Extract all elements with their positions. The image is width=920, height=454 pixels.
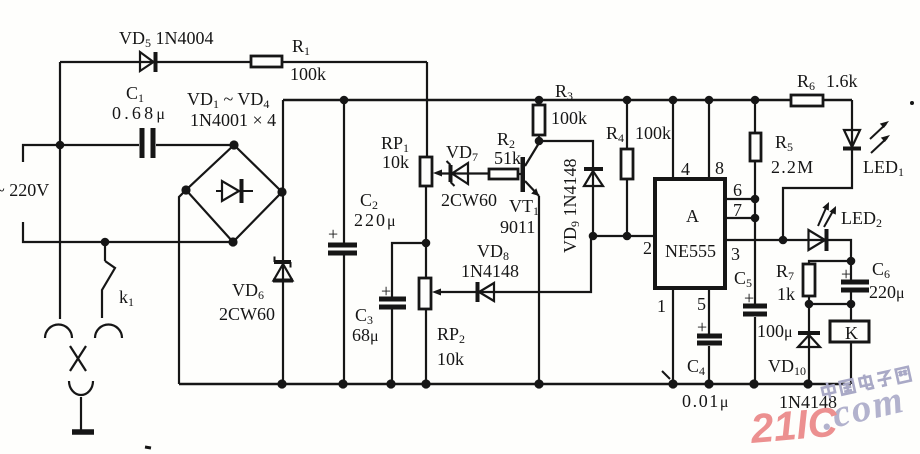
svg-text:VD1 ~ VD4: VD1 ~ VD4	[187, 89, 269, 111]
node RP1 bottom / C3 tap	[422, 239, 431, 248]
node pin2 junction	[589, 232, 598, 241]
svg-text:68μ: 68μ	[352, 325, 379, 345]
wire NE555 pin 4	[672, 100, 674, 179]
node A after LED2	[847, 257, 856, 266]
capacitor C1	[142, 128, 153, 158]
wire relay K branch x851	[850, 304, 852, 384]
wire RP1-RP2 chain x426	[425, 186, 427, 278]
wire V+ bus y100	[283, 99, 852, 102]
svg-text:~ 220V: ~ 220V	[0, 180, 49, 200]
wire AC line 2 y242 with terminal stub	[23, 222, 233, 242]
wire VT1 emitter down to ground bus x539	[538, 196, 540, 384]
node bridge top corner	[229, 140, 238, 149]
op-amp U1 NE555 box	[655, 179, 725, 288]
capacitor C6	[841, 282, 869, 290]
svg-text:100k: 100k	[551, 108, 587, 128]
stray mark near pin1	[662, 371, 670, 379]
node pin6	[751, 195, 760, 204]
wire C6 branch x851	[850, 261, 852, 304]
svg-text:3: 3	[731, 244, 740, 264]
relay K box	[830, 321, 869, 342]
wire NE555 pin 3 to LED2	[725, 240, 851, 261]
wire C2 branch x344	[343, 100, 345, 243]
svg-text:21IC: 21IC	[748, 398, 841, 452]
svg-text:LED2: LED2	[841, 208, 882, 230]
wire bridge - output drop to ground	[179, 190, 186, 384]
LED LED2	[809, 202, 837, 251]
bridge rectifier VD1-VD4 diamond	[186, 145, 282, 242]
svg-text:100k: 100k	[635, 123, 671, 143]
wire left vertical x60	[59, 62, 61, 319]
node AC1/left vertical	[56, 141, 65, 150]
svg-text:A: A	[686, 206, 699, 226]
wire top rail y62 (VD5/R1 line)	[60, 61, 427, 63]
capacitor C5	[743, 306, 767, 314]
diode VD5	[140, 52, 156, 72]
wire VD10 branch x809	[808, 304, 810, 384]
svg-text:2CW60: 2CW60	[441, 190, 497, 210]
wire NE555 pin 8	[708, 100, 710, 179]
svg-text:9011: 9011	[500, 217, 535, 237]
wire VD8 branch: down from pin2 node, left to RP2 wiper	[437, 236, 591, 292]
ground bus dots	[277, 379, 812, 388]
wire AC line 1 y145 with terminal stub	[23, 145, 234, 162]
svg-text:+: +	[381, 281, 391, 301]
node R3 bottom / collector	[535, 137, 544, 146]
svg-text:7: 7	[733, 200, 742, 220]
node bridge bottom corner	[228, 237, 237, 246]
svg-text:6: 6	[733, 180, 742, 200]
switch k1	[102, 242, 115, 318]
svg-text:2: 2	[643, 238, 652, 258]
resistor R7	[803, 264, 815, 296]
node R5 top	[751, 96, 760, 105]
wire NE555 pin 5 through C4 to ground	[708, 288, 710, 384]
node pin4 top	[669, 96, 678, 105]
resistor R4	[621, 149, 633, 179]
wire R4 leads x627	[626, 100, 628, 149]
socket contact arc left	[45, 325, 72, 339]
resistor R3	[533, 105, 545, 135]
node C2 top	[340, 96, 349, 105]
node k1 tap	[101, 238, 110, 247]
svg-text:100μ: 100μ	[757, 321, 793, 341]
wire NE555 pin 6 stub	[725, 198, 755, 200]
capacitor C4	[697, 336, 722, 343]
wire bridge + output vertical x283	[282, 100, 284, 384]
wire LED1 chain from R6 corner down and to pin3 node	[783, 100, 852, 240]
diode VD9	[584, 169, 603, 186]
svg-text:2CW60: 2CW60	[219, 304, 275, 324]
node R4 bottom	[623, 232, 632, 241]
svg-text:10k: 10k	[437, 349, 464, 369]
plug cup arc	[69, 381, 93, 395]
diode VD10	[798, 333, 820, 347]
capacitor C2	[328, 245, 357, 253]
LED LED1	[843, 121, 890, 153]
potentiometer RP1	[420, 157, 442, 186]
svg-text:VD5 1N4004: VD5 1N4004	[119, 28, 214, 50]
node bridge left corner	[181, 185, 190, 194]
svg-text:1k: 1k	[777, 284, 795, 304]
wire RP1 wiper to VD7	[438, 172, 489, 174]
stray dot top right	[910, 101, 914, 105]
svg-text:5: 5	[697, 294, 706, 314]
svg-text:0.68μ: 0.68μ	[112, 103, 168, 123]
svg-text:0.01μ: 0.01μ	[682, 391, 730, 411]
resistor R1	[251, 56, 282, 67]
plug stem	[80, 397, 82, 430]
svg-text:4: 4	[681, 159, 690, 179]
zener VD6	[273, 257, 293, 281]
svg-text:K: K	[845, 323, 858, 343]
node R4 top	[623, 96, 632, 105]
svg-text:220μ: 220μ	[354, 210, 398, 230]
node R3 top	[535, 96, 544, 105]
svg-text:1N4001 × 4: 1N4001 × 4	[190, 110, 276, 130]
svg-text:+: +	[744, 288, 754, 308]
svg-text:8: 8	[715, 158, 724, 178]
node pin7	[751, 214, 760, 223]
wire vertical from R1 corner down to RP1 top	[426, 62, 428, 157]
resistor R2	[489, 169, 518, 179]
plug X symbol	[70, 346, 86, 371]
svg-text:NE555: NE555	[665, 241, 716, 261]
wire node B link y304	[809, 303, 851, 305]
transistor VT1	[521, 143, 540, 196]
node bridge right corner	[277, 187, 286, 196]
plug end bar	[72, 429, 94, 435]
svg-text:1N4148: 1N4148	[461, 261, 519, 281]
potentiometer RP2	[419, 278, 441, 309]
wire R3 bottom to VD9 top	[539, 141, 593, 236]
socket contact arc right (k1 side)	[95, 325, 122, 339]
wire ground bus y384	[179, 383, 851, 386]
svg-text:1: 1	[657, 296, 666, 316]
wire NE555 pin 7 stub	[725, 217, 755, 219]
wire R5 / C5 vertical x755	[754, 100, 756, 384]
svg-text:10k: 10k	[382, 152, 409, 172]
wire R2 to VT1 base	[518, 173, 521, 175]
svg-text:51k: 51k	[494, 148, 521, 168]
node C6 bottom	[847, 300, 856, 309]
node R7 bottom	[805, 300, 814, 309]
svg-text:220μ: 220μ	[869, 282, 905, 302]
diode VD8	[478, 282, 495, 302]
wire C3 branch	[392, 243, 426, 297]
watermark 中国电子网 (drawn strokes, no CJK font available)	[821, 365, 911, 400]
node pin3/LED1	[779, 236, 788, 245]
svg-text:+: +	[328, 224, 338, 244]
svg-text:+: +	[697, 317, 707, 337]
capacitor C3	[379, 299, 406, 307]
stray speck bottom left	[145, 447, 151, 448]
svg-text:+: +	[841, 264, 851, 284]
wire NE555 pin 1 to ground	[672, 288, 674, 384]
zener VD7	[447, 161, 469, 186]
svg-text:VD9 1N4148: VD9 1N4148	[560, 159, 582, 254]
node pin8 top	[705, 96, 714, 105]
svg-text:1.6k: 1.6k	[826, 71, 858, 91]
wire R3 leads x539	[538, 100, 540, 105]
wire pin2 node to NE555 pin 2	[593, 235, 655, 237]
resistor R6	[791, 95, 823, 106]
svg-text:100k: 100k	[290, 64, 326, 84]
svg-text:LED1: LED1	[863, 157, 904, 179]
wire R7 branch	[809, 261, 851, 264]
resistor R5	[750, 133, 761, 161]
svg-text:2.2M: 2.2M	[771, 157, 814, 177]
